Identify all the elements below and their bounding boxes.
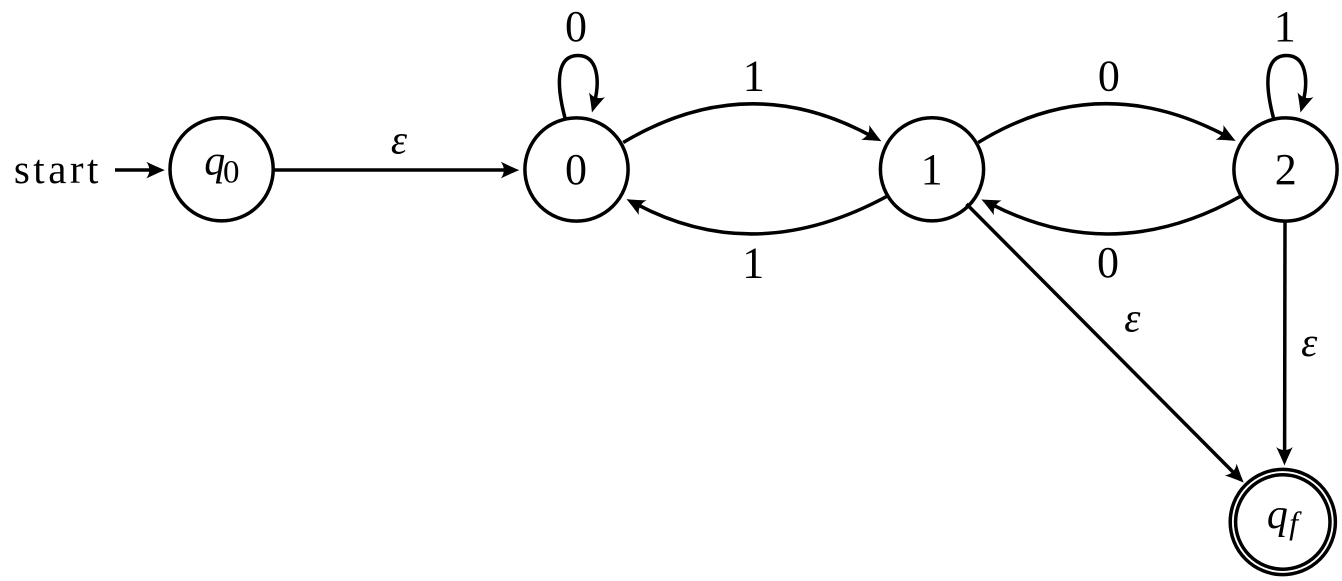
accepting state qf (double circle): [1230, 469, 1335, 574]
edge 0 to 1 (label 1): [623, 104, 885, 149]
svg-text:ε: ε: [1301, 319, 1318, 365]
svg-text:1: 1: [742, 238, 764, 287]
label 0 on edge 1 to 2: [1098, 52, 1120, 101]
label 1 on edge 1 to 0: [742, 238, 764, 287]
edge 1 to 2 (label 0): [978, 104, 1239, 149]
edge 2 to 1 (label 0): [978, 192, 1241, 234]
label epsilon on edge 2 to qf: [1301, 319, 1318, 365]
start label: [14, 146, 102, 192]
label 0 on edge 2 to 1: [1097, 238, 1119, 287]
self-loop on state 0: [559, 56, 605, 119]
svg-text:0: 0: [565, 145, 587, 194]
label epsilon on edge 1 to qf: [1124, 294, 1141, 340]
edge q0 to 0 (epsilon): [275, 162, 520, 179]
edge 1 to qf (epsilon diagonal): [967, 204, 1250, 489]
svg-text:0: 0: [1097, 238, 1119, 287]
label 1 on edge 0 to 1: [743, 51, 765, 100]
edge 2 to qf (epsilon vertical): [1276, 220, 1293, 466]
svg-text:0: 0: [1098, 52, 1120, 101]
state q0: [170, 118, 273, 221]
svg-text:1: 1: [743, 51, 765, 100]
label 0 on self-loop of state 0: [565, 2, 587, 51]
svg-text:ε: ε: [1124, 294, 1141, 340]
self-loop on state 2: [1268, 56, 1314, 119]
label 1 on self-loop of state 2: [1274, 2, 1296, 51]
state 2: [1234, 118, 1337, 221]
svg-text:0: 0: [223, 154, 240, 190]
svg-text:1: 1: [1274, 2, 1296, 51]
state 0: [525, 118, 628, 221]
start arrow: [115, 162, 165, 179]
svg-text:start: start: [14, 146, 102, 192]
svg-text:q: q: [1267, 492, 1288, 538]
state 1: [880, 118, 983, 221]
svg-text:2: 2: [1275, 145, 1297, 194]
svg-text:ε: ε: [391, 117, 408, 163]
svg-text:f: f: [1289, 505, 1302, 541]
svg-text:0: 0: [565, 2, 587, 51]
edge 1 to 0 (label 1): [623, 192, 888, 234]
svg-text:1: 1: [921, 145, 943, 194]
label epsilon on edge q0 to 0: [391, 117, 408, 163]
